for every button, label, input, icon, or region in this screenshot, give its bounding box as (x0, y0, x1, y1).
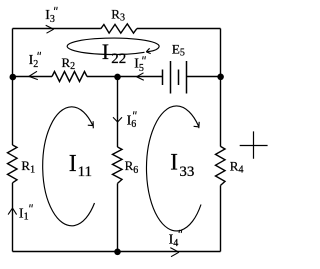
svg-text:I: I (170, 150, 178, 175)
arrow I1 (up, on left wire) (8, 208, 17, 215)
mesh loop I33 (tall arc with arrow) (146, 106, 201, 231)
svg-text:R2: R2 (62, 55, 76, 72)
svg-text:11: 11 (78, 164, 92, 180)
svg-text:R1: R1 (21, 158, 35, 175)
svg-text:E5: E5 (172, 41, 185, 58)
arrow I3 (right, on top wire) (46, 25, 54, 33)
svg-text:I6: I6 (127, 114, 137, 130)
svg-text:I: I (102, 39, 109, 64)
node dot bottom (114, 249, 121, 256)
svg-text:R4: R4 (230, 159, 244, 176)
node dot left (10, 74, 17, 81)
wire top segment right (137, 28, 221, 30)
node dot right (217, 74, 224, 81)
svg-text:I: I (69, 151, 77, 177)
resistor R4 (216, 146, 226, 185)
svg-text:R6: R6 (125, 158, 139, 176)
resistor R2 (52, 72, 87, 82)
resistor R1 (8, 145, 18, 183)
battery E5 plates (163, 61, 187, 94)
wire middle horizontal left (node to R2) (13, 76, 53, 78)
svg-text:I2: I2 (29, 53, 39, 70)
wire left vertical upper (12, 29, 14, 146)
wire battery to right node (187, 76, 221, 78)
svg-text:I1: I1 (19, 207, 29, 223)
mesh loop I11 (tall arc with arrow) (43, 107, 95, 226)
mesh loop I22 (flat ellipse with arrow) (67, 38, 159, 54)
wire middle horizontal (R2 to battery) (87, 76, 163, 78)
svg-text:I3: I3 (45, 8, 55, 25)
arrow I2 (left, on middle wire) (29, 71, 38, 79)
svg-text:R3: R3 (111, 6, 125, 23)
arrow I5 (left, on middle wire) (137, 73, 144, 80)
arrow I6 (down, on middle wire) (113, 117, 122, 122)
plus sign (polarity mark) (240, 131, 268, 158)
wire bottom (13, 251, 221, 253)
wire top segment left (13, 28, 101, 30)
wire right vertical lower (220, 185, 222, 251)
resistor R3 (101, 24, 137, 33)
wire middle vertical upper (117, 77, 119, 148)
svg-text:22: 22 (111, 51, 126, 67)
node dot middle (114, 74, 121, 81)
wire left vertical lower (12, 183, 14, 252)
resistor R6 (113, 147, 123, 183)
wire middle vertical lower (117, 183, 119, 251)
arrow I4 (right, on bottom wire) (170, 248, 179, 257)
wire right vertical upper (220, 29, 222, 147)
svg-text:I4: I4 (169, 232, 179, 249)
svg-text:33: 33 (179, 164, 194, 180)
